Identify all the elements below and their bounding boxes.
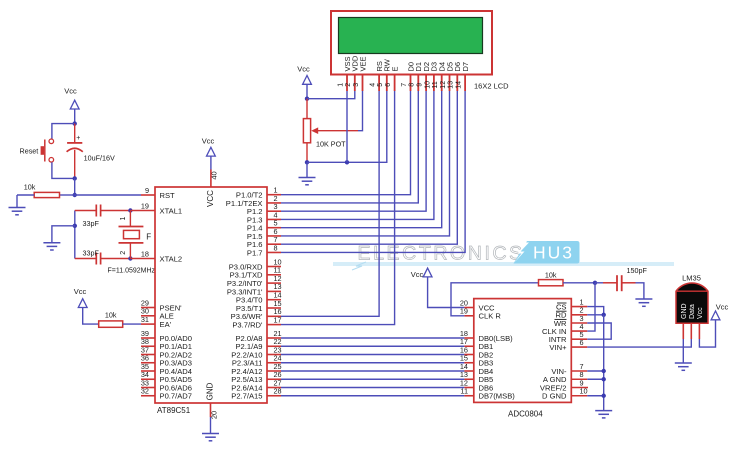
wire P2.2 to DB2 <box>267 354 281 356</box>
wire P2.4 to DB4 <box>267 370 281 372</box>
wire P1.0 to LCD D0 <box>267 194 281 196</box>
svg-text:P1.7: P1.7 <box>247 248 263 257</box>
wire left rail (crystal) <box>74 211 76 259</box>
svg-text:16X2 LCD: 16X2 LCD <box>474 82 509 91</box>
node RST junction <box>73 193 77 197</box>
wire Vcc to reset rail <box>74 109 76 124</box>
node reset-top junction <box>73 121 77 125</box>
svg-text:GND: GND <box>681 303 688 319</box>
svg-text:Reset: Reset <box>20 147 39 156</box>
svg-text:ADC0804: ADC0804 <box>508 410 543 419</box>
power Vcc (EA) <box>74 287 87 308</box>
wire junction to RST row <box>74 178 76 195</box>
wire P1.2 to LCD D2 <box>267 210 281 212</box>
pin labels right (8051) <box>226 191 263 401</box>
svg-text:1: 1 <box>337 83 344 87</box>
wire Vcc to pot <box>306 84 308 98</box>
svg-text:9: 9 <box>145 186 149 195</box>
ground (crystal) <box>43 242 60 244</box>
svg-text:33pF: 33pF <box>83 219 100 228</box>
node clock junction <box>593 281 597 285</box>
sensor U3 LM35 body <box>676 283 708 323</box>
wire VIN+ to LM35 Data <box>571 346 587 348</box>
svg-text:ELECTRONICS: ELECTRONICS <box>358 243 525 265</box>
overline WR <box>555 318 567 320</box>
svg-text:DB7(MSB): DB7(MSB) <box>479 392 516 401</box>
LCD green screen <box>339 18 483 54</box>
svg-text:D GND: D GND <box>542 392 567 401</box>
pin P0.4 stub <box>141 370 155 372</box>
svg-text:14: 14 <box>456 81 463 89</box>
svg-text:10k: 10k <box>545 271 557 280</box>
pin P3.1 stub <box>267 274 281 276</box>
svg-text:EA': EA' <box>160 320 172 329</box>
wire switch bottom to junction <box>52 162 75 178</box>
svg-text:19: 19 <box>141 201 149 210</box>
LCD pin numbers <box>337 81 462 89</box>
pin P3.5 stub <box>267 307 281 309</box>
svg-text:P3.7/RD': P3.7/RD' <box>232 321 263 330</box>
transistor U2 ADC0804 body <box>474 299 572 403</box>
power Vcc (ADC) <box>411 268 432 279</box>
pin P0.3 stub <box>141 362 155 364</box>
capacitor C1 10uF/16V <box>67 124 83 179</box>
svg-text:10K POT: 10K POT <box>316 140 346 149</box>
resistor R1 10k (reset) <box>17 192 75 197</box>
svg-text:Vcc: Vcc <box>697 307 704 319</box>
LM35 pin labels <box>681 303 704 319</box>
ground (8051 pin20) <box>202 433 219 435</box>
svg-text:10k: 10k <box>24 182 36 191</box>
wire P2.6 to DB6 <box>267 387 281 389</box>
wire to switch top <box>52 124 75 139</box>
svg-text:13: 13 <box>448 81 455 89</box>
svg-text:Vcc: Vcc <box>202 137 215 146</box>
wire CS to tie <box>571 306 587 308</box>
capacitor C3 33pF (bottom) <box>75 253 131 265</box>
wire P2.3 to DB3 <box>267 362 281 364</box>
pin VREF/2 stub <box>571 387 588 389</box>
wire P1.6 to LCD D6 <box>267 243 281 245</box>
wire to ground <box>16 195 18 208</box>
wire cap to ground <box>636 283 644 299</box>
svg-text:Data: Data <box>689 304 696 319</box>
node cap-bottom junction <box>73 176 77 180</box>
LCD pin labels <box>343 55 470 71</box>
svg-text:D7: D7 <box>461 62 470 72</box>
wire LM35 Vcc <box>699 320 715 347</box>
wire VDD of LCD <box>307 91 355 99</box>
wire RST to chip <box>75 194 141 196</box>
svg-text:19: 19 <box>460 307 468 316</box>
svg-text:Vcc: Vcc <box>64 87 77 96</box>
pin P0.0 stub <box>141 337 155 339</box>
pin P0.7 stub <box>141 395 155 397</box>
node CS/RD tie <box>602 313 606 317</box>
wire ground rail (ADC right) <box>603 315 605 411</box>
svg-text:Vcc: Vcc <box>74 287 87 296</box>
svg-text:5: 5 <box>377 83 384 87</box>
switch Reset <box>41 139 54 162</box>
power Vcc (LM35) <box>711 303 728 320</box>
svg-text:1: 1 <box>120 216 127 220</box>
node XTAL2 junction <box>128 256 132 260</box>
svg-text:8: 8 <box>409 83 416 87</box>
overline CS <box>557 302 567 304</box>
pin PSEN stub <box>141 307 155 309</box>
svg-text:4: 4 <box>370 83 377 87</box>
svg-text:GND: GND <box>206 382 215 400</box>
svg-text:LM35: LM35 <box>682 274 701 283</box>
svg-text:2: 2 <box>120 251 127 255</box>
svg-text:12: 12 <box>440 81 447 89</box>
wire P1.5 to LCD D5 <box>267 235 281 237</box>
svg-text:11: 11 <box>432 81 439 88</box>
wire resistor to EA pin <box>123 323 141 325</box>
watermark HUB logo <box>514 241 580 264</box>
svg-text:P0.7/AD7: P0.7/AD7 <box>160 392 193 401</box>
pin P0.2 stub <box>141 354 155 356</box>
watermark band <box>333 262 674 270</box>
power Vcc (reset) <box>64 87 79 110</box>
wire P2.7 to DB7 <box>267 395 281 397</box>
svg-text:9: 9 <box>417 83 424 87</box>
svg-text:Vcc: Vcc <box>716 303 729 312</box>
pin labels right (ADC) <box>540 297 588 400</box>
power Vcc (8051 pin40) <box>202 137 216 157</box>
wire LM35 GND to ground <box>682 339 684 363</box>
svg-text:2: 2 <box>345 83 352 87</box>
pin labels left (ADC) <box>460 298 515 400</box>
svg-text:10: 10 <box>424 81 431 89</box>
wire resistor to junction <box>563 282 595 284</box>
svg-text:RST: RST <box>160 191 176 200</box>
wire VSS of LCD down <box>346 91 348 162</box>
wire P2.0 to DB0 <box>267 337 281 339</box>
svg-text:VIN+: VIN+ <box>549 343 567 352</box>
svg-text:F: F <box>146 233 151 242</box>
wire P1.1 to LCD D1 <box>267 202 281 204</box>
svg-text:18: 18 <box>141 249 149 258</box>
svg-text:+: + <box>76 135 80 142</box>
svg-text:VCC: VCC <box>206 190 215 207</box>
wire VIN- to rail <box>571 370 587 372</box>
wire rail to ground <box>52 226 75 243</box>
ground (LM35) <box>675 362 692 364</box>
wire D GND to rail <box>571 395 587 397</box>
svg-text:E: E <box>390 66 399 71</box>
svg-text:XTAL1: XTAL1 <box>160 206 183 215</box>
overline RD <box>556 310 567 312</box>
svg-text:HU3: HU3 <box>533 243 574 263</box>
wire WR-INTR loop <box>571 322 587 324</box>
svg-text:6: 6 <box>385 83 392 87</box>
LCD pin stubs <box>347 75 465 92</box>
ground (reset resistor) <box>9 207 26 209</box>
svg-text:Vcc: Vcc <box>411 270 424 279</box>
ground (150pF) <box>635 298 652 300</box>
op-amp U1 AT89C51 body <box>155 187 267 403</box>
pin P3.4 stub <box>267 299 281 301</box>
svg-text:P2.7/A15: P2.7/A15 <box>231 392 262 401</box>
wire XTAL1 to chip <box>130 210 155 212</box>
pin P0.5 stub <box>141 378 155 380</box>
wire pin20 to ground <box>210 403 212 417</box>
wire P2.5 to DB5 <box>267 378 281 380</box>
svg-text:3: 3 <box>353 83 360 87</box>
wire CLK R loop <box>464 315 473 317</box>
svg-text:31: 31 <box>141 315 149 324</box>
svg-text:XTAL2: XTAL2 <box>160 254 183 263</box>
node XTAL1 junction <box>128 208 132 212</box>
wire ground rail to RW <box>307 91 387 162</box>
svg-text:32: 32 <box>141 387 149 396</box>
ground (pot) <box>299 177 316 179</box>
wire P1.3 to LCD D3 <box>267 218 281 220</box>
wire Vcc to resistor <box>83 308 99 325</box>
wire pin40 <box>210 156 212 169</box>
pin P0.6 stub <box>141 387 155 389</box>
LCD module 16X2 body <box>331 11 492 75</box>
resistor R3 10k (ADC clock) <box>539 280 564 286</box>
wire junction to CLK IN <box>587 283 595 331</box>
power Vcc (pot) <box>297 65 311 85</box>
wire XTAL2 to chip <box>130 258 155 260</box>
svg-text:11: 11 <box>460 387 468 396</box>
svg-text:10uF/16V: 10uF/16V <box>84 154 115 163</box>
svg-text:150pF: 150pF <box>627 266 648 275</box>
pin numbers right (8051) <box>274 186 282 396</box>
ground (ADC rail) <box>595 410 612 412</box>
pin P3.3 stub <box>267 290 281 292</box>
wire A GND to rail <box>571 378 587 380</box>
svg-text:VEE: VEE <box>358 56 367 71</box>
wire P1.4 to LCD D4 <box>267 227 281 229</box>
pin labels left (8051) <box>160 191 193 401</box>
wire P3.6 to LCD RS <box>267 315 281 317</box>
capacitor C4 150pF <box>595 275 636 291</box>
svg-text:AT89C51: AT89C51 <box>157 406 191 415</box>
pin ALE stub <box>141 315 155 317</box>
svg-text:7: 7 <box>401 83 408 87</box>
capacitor C2 33pF (top) <box>75 205 131 217</box>
node pot bottom junction <box>305 160 309 164</box>
wire RD to tie <box>571 314 587 316</box>
wire P3.7 to LCD E <box>267 324 281 326</box>
svg-text:CLK R: CLK R <box>479 312 502 321</box>
svg-text:10k: 10k <box>105 311 117 320</box>
pin P3.2 stub <box>267 282 281 284</box>
wire P2.1 to DB1 <box>267 345 281 347</box>
node VSS junction <box>345 160 349 164</box>
node rail-ground tap <box>73 224 77 228</box>
LM35 pin stubs <box>683 323 699 339</box>
crystal X1 <box>119 211 144 259</box>
wire Vcc to ADC VCC pin <box>428 277 465 308</box>
svg-text:Vcc: Vcc <box>297 65 310 74</box>
wire VEE of LCD to wiper <box>358 91 363 131</box>
pin P0.1 stub <box>141 345 155 347</box>
resistor R2 10k (EA) <box>99 321 123 327</box>
pin numbers left (8051) <box>141 186 149 396</box>
svg-text:F=11.0592MHz: F=11.0592MHz <box>108 268 156 275</box>
wire pot to ground <box>306 162 308 177</box>
node Vcc/VDD junction <box>305 97 309 101</box>
pin P3.0 stub <box>267 266 281 268</box>
wire P1.7 to LCD D7 <box>267 251 281 253</box>
potentiometer RV1 10K POT <box>303 99 358 163</box>
svg-text:33pF: 33pF <box>83 249 100 258</box>
